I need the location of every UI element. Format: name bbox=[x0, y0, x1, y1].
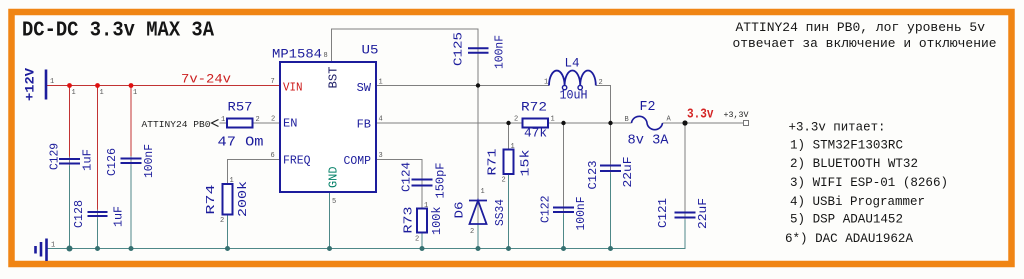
svg-text:100nF: 100nF bbox=[143, 144, 156, 178]
wire C121 drop bbox=[684, 123, 686, 213]
node SW junction bbox=[476, 83, 480, 87]
capacitor C121 bbox=[675, 213, 696, 218]
svg-text:BST: BST bbox=[327, 67, 341, 89]
svg-text:ATTINY24 пин PB0, лог уровень: ATTINY24 пин PB0, лог уровень 5v bbox=[736, 20, 986, 35]
node gnd junction U5 bbox=[327, 246, 332, 251]
signal arrow ATTINY24 PB0 bbox=[212, 120, 219, 127]
svg-text:1: 1 bbox=[100, 89, 104, 97]
node 3.3v junction bbox=[682, 120, 687, 125]
svg-text:R57: R57 bbox=[228, 100, 253, 115]
svg-text:D6: D6 bbox=[454, 201, 467, 218]
svg-text:1: 1 bbox=[133, 89, 137, 97]
wire +12V red rail bbox=[46, 85, 280, 87]
capacitor C126 bbox=[121, 159, 142, 164]
wire tick through D6 bbox=[477, 201, 479, 225]
capacitor C128 bbox=[88, 212, 108, 216]
IC U5 MP1584 body bbox=[280, 62, 376, 192]
wire ground rail bbox=[47, 218, 686, 249]
wire R71 stub from FB node bbox=[508, 123, 510, 150]
svg-text:R71: R71 bbox=[487, 148, 500, 175]
svg-text:1: 1 bbox=[230, 177, 234, 185]
node FB junction R71 bbox=[506, 121, 510, 125]
svg-text:100k: 100k bbox=[431, 206, 444, 235]
svg-text:C125: C125 bbox=[452, 32, 466, 66]
svg-text:2: 2 bbox=[502, 177, 506, 185]
wire BST loop top bbox=[332, 29, 479, 62]
svg-text:1uF: 1uF bbox=[113, 206, 126, 227]
svg-text:EN: EN bbox=[283, 117, 297, 131]
svg-text:C128: C128 bbox=[73, 200, 86, 228]
resistor R72 bbox=[523, 119, 549, 128]
wire FB row from IC to R72 bbox=[376, 122, 523, 124]
wire R71 to ground bbox=[508, 174, 510, 249]
svg-text:5: 5 bbox=[332, 198, 336, 206]
svg-text:47k: 47k bbox=[524, 126, 547, 141]
wire L4 right down to output row bbox=[596, 86, 611, 124]
wire tick through C122 bbox=[563, 205, 565, 215]
wire tick through C125 bbox=[477, 46, 479, 56]
node gnd junction R73 bbox=[420, 246, 425, 251]
wire red drop to C128 bbox=[97, 86, 99, 213]
svg-text:15k: 15k bbox=[520, 149, 533, 176]
resistor R73 bbox=[417, 209, 427, 233]
wire C129 to ground bbox=[69, 164, 71, 249]
svg-text:6*) DAC ADAU1962A: 6*) DAC ADAU1962A bbox=[785, 232, 913, 246]
svg-text:C123: C123 bbox=[587, 160, 600, 189]
svg-text:C121: C121 bbox=[657, 198, 670, 228]
wire C128 to ground bbox=[97, 216, 99, 249]
svg-text:8v 3A: 8v 3A bbox=[628, 134, 670, 149]
diode D6 SS34 bbox=[469, 201, 487, 225]
svg-text:1: 1 bbox=[511, 143, 515, 151]
svg-text:200k: 200k bbox=[237, 181, 250, 217]
svg-text:отвечает за включение и отключ: отвечает за включение и отключение bbox=[733, 36, 997, 51]
svg-text:2: 2 bbox=[220, 217, 224, 225]
svg-text:+3.3v питает:: +3.3v питает: bbox=[789, 121, 886, 135]
svg-text:VIN: VIN bbox=[283, 81, 303, 95]
svg-text:COMP: COMP bbox=[344, 154, 372, 168]
svg-text:1: 1 bbox=[481, 188, 485, 196]
wire red drop to C129 bbox=[69, 86, 71, 160]
svg-text:DC-DC 3.3v MAX 3A: DC-DC 3.3v MAX 3A bbox=[22, 20, 214, 43]
svg-text:2) BLUETOOTH WT32: 2) BLUETOOTH WT32 bbox=[790, 157, 918, 171]
node red junction C126 bbox=[129, 83, 134, 88]
wire tick through C124 bbox=[421, 177, 423, 188]
svg-text:R73: R73 bbox=[403, 206, 416, 233]
svg-text:GND: GND bbox=[327, 167, 341, 189]
wire IC GND pin to ground bbox=[329, 192, 331, 249]
svg-text:R72: R72 bbox=[521, 100, 547, 115]
node gnd junction C126 bbox=[129, 246, 134, 251]
svg-text:7: 7 bbox=[271, 78, 275, 86]
capacitor C129 bbox=[59, 159, 80, 164]
port +3.3V square bbox=[744, 121, 749, 126]
node C123 junction bbox=[608, 121, 612, 125]
svg-text:22uF: 22uF bbox=[622, 156, 635, 187]
inductor L4 loop 2 bbox=[578, 85, 582, 89]
wire tick through C128 bbox=[97, 210, 99, 219]
svg-text:47 Om: 47 Om bbox=[218, 136, 264, 151]
wire SW node down to D6 bbox=[477, 86, 479, 201]
svg-text:SS34: SS34 bbox=[494, 199, 507, 226]
svg-text:2: 2 bbox=[599, 79, 603, 87]
wire C125 bottom to SW node bbox=[477, 53, 479, 86]
wire red drop to C126 bbox=[130, 86, 132, 159]
resistor R71 bbox=[504, 150, 514, 175]
wire tick through C129 bbox=[69, 157, 71, 167]
svg-text:1: 1 bbox=[424, 202, 428, 210]
svg-text:ATTINY24 PB0: ATTINY24 PB0 bbox=[142, 119, 211, 130]
svg-text:1: 1 bbox=[544, 79, 548, 87]
svg-text:2: 2 bbox=[470, 228, 474, 236]
wire output row fuse to port bbox=[663, 122, 744, 124]
svg-text:2: 2 bbox=[514, 116, 518, 124]
wire SW row from IC to L4 bbox=[376, 85, 549, 87]
wire C126 to ground bbox=[130, 163, 132, 249]
svg-text:7v-24v: 7v-24v bbox=[181, 72, 231, 87]
svg-text:FB: FB bbox=[357, 118, 371, 132]
svg-text:1: 1 bbox=[50, 78, 54, 86]
svg-text:1) STM32F1303RC: 1) STM32F1303RC bbox=[790, 139, 903, 153]
wire C122 to ground bbox=[563, 212, 565, 249]
wire D6 to ground bbox=[477, 224, 479, 249]
svg-text:8: 8 bbox=[324, 52, 328, 60]
svg-text:C126: C126 bbox=[106, 148, 119, 176]
power symbol +12V bar bbox=[45, 70, 48, 100]
svg-text:2: 2 bbox=[256, 116, 260, 124]
node red junction C128 bbox=[95, 83, 100, 88]
wire tick through C123 bbox=[610, 163, 612, 174]
resistor R74 bbox=[223, 184, 233, 215]
svg-text:L4: L4 bbox=[565, 56, 580, 71]
inductor L4 loop 1 bbox=[562, 85, 566, 89]
wire tick through C126 bbox=[130, 156, 132, 166]
node C122 junction bbox=[561, 121, 565, 125]
svg-text:FREQ: FREQ bbox=[283, 154, 311, 168]
svg-text:100nF: 100nF bbox=[575, 196, 588, 230]
wire R73 to ground bbox=[421, 233, 423, 249]
svg-text:1: 1 bbox=[72, 89, 76, 97]
svg-text:1: 1 bbox=[379, 79, 383, 87]
svg-text:2: 2 bbox=[271, 116, 275, 124]
svg-text:+3,3V: +3,3V bbox=[724, 110, 750, 120]
svg-text:3.3v: 3.3v bbox=[687, 107, 714, 123]
svg-text:SW: SW bbox=[357, 81, 372, 95]
node red junction C129 bbox=[67, 83, 72, 88]
svg-text:22uF: 22uF bbox=[697, 198, 710, 229]
wire FREQ from IC left down to R74 bbox=[228, 160, 281, 185]
wire C122 drop bbox=[563, 123, 565, 208]
svg-text:R74: R74 bbox=[205, 184, 218, 214]
svg-text:+12V: +12V bbox=[23, 68, 38, 101]
svg-text:6: 6 bbox=[271, 152, 275, 160]
node gnd junction R71 bbox=[506, 246, 511, 251]
node gnd junction C128 bbox=[95, 246, 100, 251]
capacitor C123 bbox=[600, 166, 621, 172]
svg-text:4: 4 bbox=[379, 116, 383, 124]
resistor R57 bbox=[227, 119, 253, 128]
svg-text:3: 3 bbox=[379, 152, 383, 160]
svg-text:C129: C129 bbox=[49, 143, 62, 170]
node gnd junction C129 bbox=[67, 246, 73, 252]
fuse F2 bbox=[632, 116, 663, 129]
svg-text:100nF: 100nF bbox=[493, 35, 507, 69]
svg-text:10uH: 10uH bbox=[560, 88, 588, 103]
inductor L4 bbox=[549, 70, 596, 85]
svg-text:1: 1 bbox=[51, 242, 55, 250]
svg-text:MP1584: MP1584 bbox=[272, 47, 322, 62]
svg-text:150pF: 150pF bbox=[435, 162, 448, 198]
wire tick through C121 bbox=[684, 210, 686, 220]
svg-text:C124: C124 bbox=[401, 162, 414, 192]
capacitor C122 bbox=[553, 208, 574, 213]
svg-text:5) DSP ADAU1452: 5) DSP ADAU1452 bbox=[790, 213, 903, 227]
svg-text:C122: C122 bbox=[540, 195, 553, 223]
wire C124 to R73 bbox=[421, 186, 423, 209]
svg-text:B: B bbox=[625, 116, 629, 124]
node gnd junction C123 bbox=[608, 246, 613, 251]
wire C123 to ground bbox=[610, 171, 612, 249]
ground symbol bbox=[36, 239, 47, 262]
svg-text:U5: U5 bbox=[362, 43, 379, 58]
svg-text:1: 1 bbox=[551, 116, 555, 124]
svg-text:F2: F2 bbox=[640, 100, 656, 115]
node gnd junction D6 bbox=[476, 246, 481, 251]
wire R74 to ground bbox=[227, 215, 229, 249]
svg-text:1: 1 bbox=[221, 116, 225, 124]
svg-text:4) USBi Programmer: 4) USBi Programmer bbox=[790, 195, 925, 209]
wire output row R72 to fuse bbox=[548, 122, 632, 124]
svg-text:2: 2 bbox=[415, 236, 419, 244]
svg-text:1uF: 1uF bbox=[82, 149, 95, 171]
capacitor C124 bbox=[412, 180, 433, 186]
node gnd junction R74 bbox=[225, 246, 230, 251]
node gnd junction C122 bbox=[561, 246, 566, 251]
wire EN row from arrow to IC bbox=[220, 122, 281, 124]
wire C123 drop bbox=[610, 123, 612, 166]
wire COMP from IC to C124 bbox=[376, 160, 422, 180]
capacitor C125 bbox=[468, 48, 489, 53]
svg-text:3) WIFI ESP-01 (8266): 3) WIFI ESP-01 (8266) bbox=[790, 176, 948, 190]
